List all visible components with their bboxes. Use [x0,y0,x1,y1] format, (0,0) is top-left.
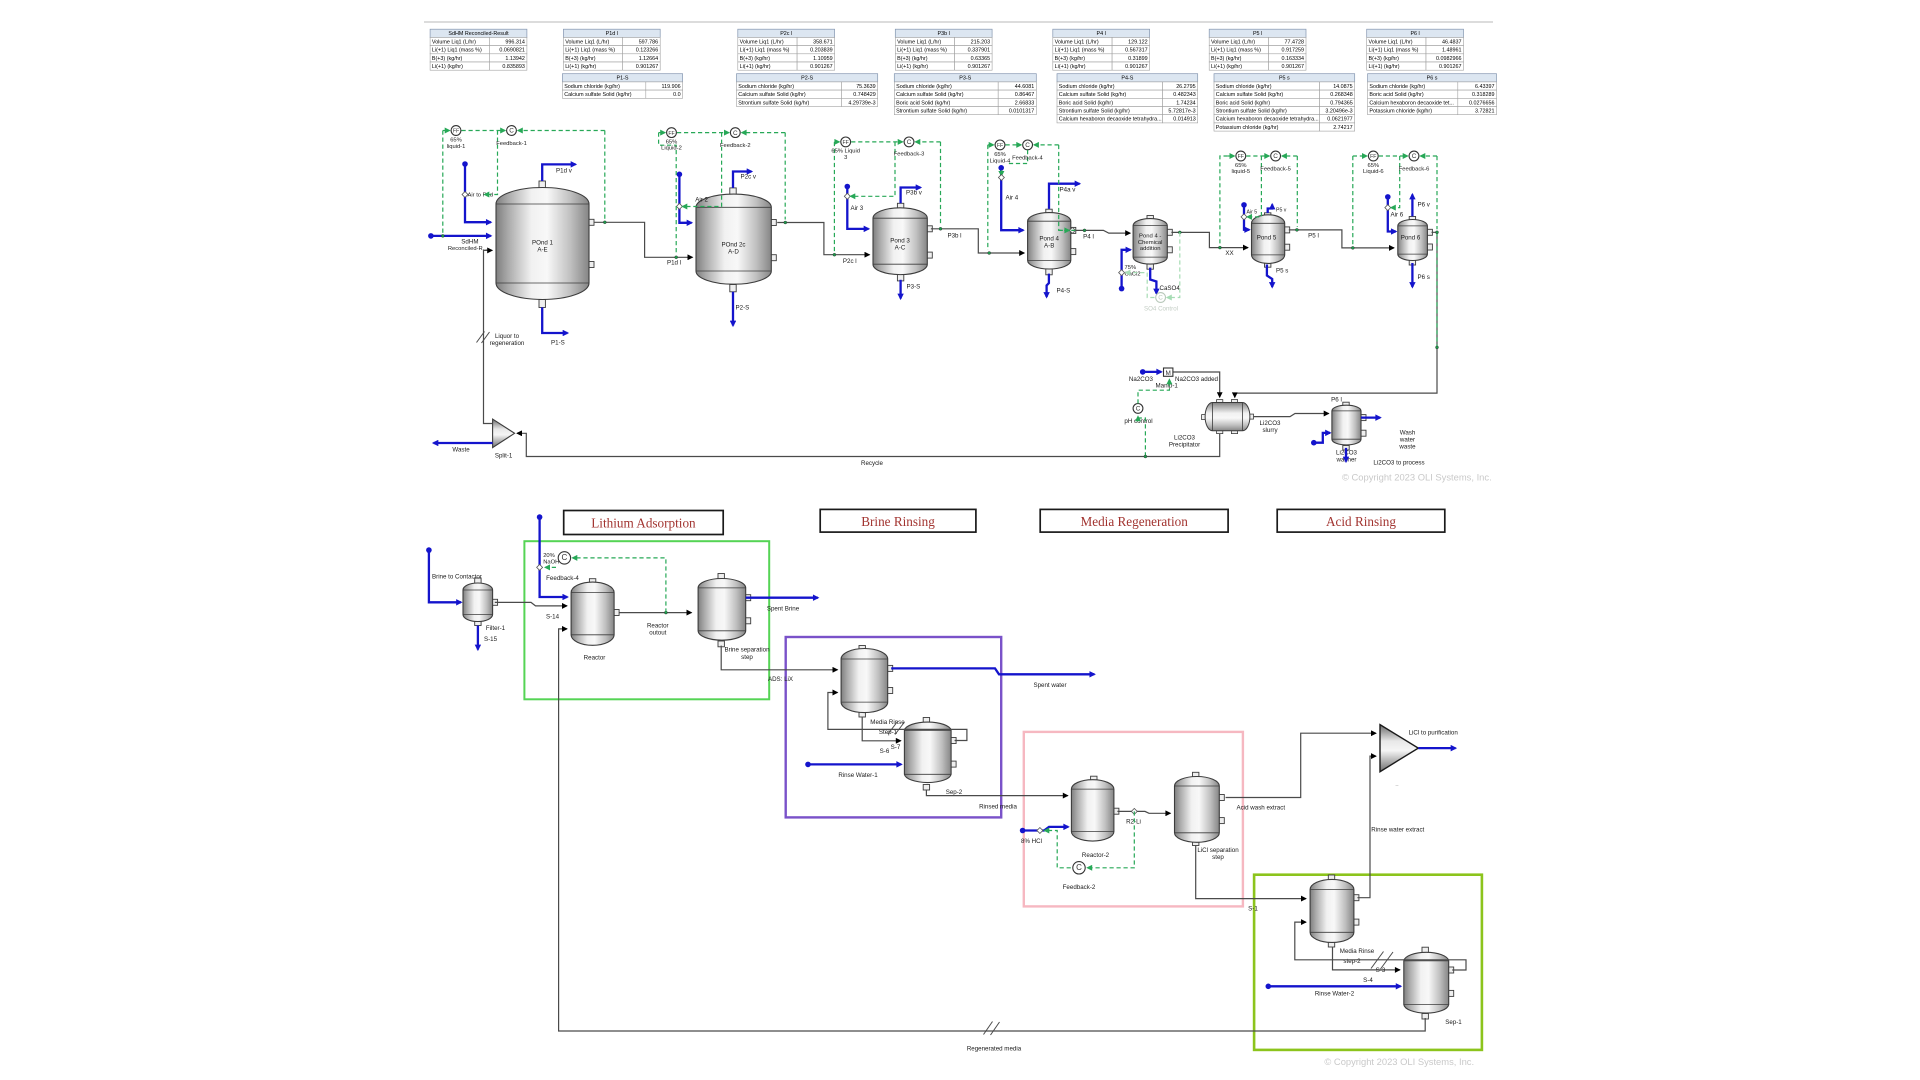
stream P3b v vapor [901,188,921,204]
valve node on NaOH line [537,564,543,570]
svg-text:FF: FF [668,131,674,137]
svg-text:Calcium hexaboron decaoxide te: Calcium hexaboron decaoxide tetrahydra..… [1216,117,1319,123]
svg-text:2.66833: 2.66833 [1015,100,1035,106]
svg-text:75%CaCl2: 75%CaCl2 [1125,265,1141,278]
svg-text:C: C [1076,863,1082,872]
wire dashed C-5 output to air valve [1247,156,1261,217]
node on P2c l at pond3 FF tap [833,253,836,256]
wire Liquor to regeneration stream [484,250,493,423]
stream S-15 out [477,626,479,650]
svg-text:M: M [1166,370,1171,377]
svg-text:0.835893: 0.835893 [502,64,524,70]
svg-text:LiCl to purification: LiCl to purification [1409,729,1459,736]
stream P5 s solids out [1267,265,1272,288]
node Feedback-4 tap on reactor out [664,611,667,614]
wire SO4 control sample [1167,232,1180,297]
svg-text:Potassium chloride (kg/hr): Potassium chloride (kg/hr) [1216,125,1279,131]
stream P1-S solids out [542,307,567,333]
svg-text:ADS: LiX: ADS: LiX [768,676,793,683]
svg-text:step-2: step-2 [1343,958,1361,965]
controller Feedback-4 C [1023,140,1033,150]
svg-text:0.901267: 0.901267 [1282,64,1304,70]
svg-text:26.2795: 26.2795 [1176,84,1196,90]
svg-text:FF: FF [453,129,459,135]
svg-text:Li(+1) Liq1 (mass %): Li(+1) Liq1 (mass %) [740,48,790,54]
wire pH control to Manip-1 [1138,380,1169,404]
svg-text:Air 5: Air 5 [1247,210,1258,216]
stream Spent Brine [746,597,818,599]
svg-text:P5 l: P5 l [1253,31,1262,37]
wire Feedback-4 sample from reactor out [573,558,666,613]
svg-text:0.0276656: 0.0276656 [1469,100,1494,106]
svg-text:P2-S: P2-S [801,76,813,82]
vessel Brine separation step [698,574,751,647]
svg-text:P5 s: P5 s [1276,268,1288,275]
svg-text:0.748429: 0.748429 [853,92,875,98]
svg-text:P3b l: P3b l [938,31,950,37]
pond vessel Pond 3 A-C [873,203,932,281]
svg-text:P2-S: P2-S [736,305,750,312]
svg-text:1.74234: 1.74234 [1176,100,1196,106]
svg-text:Feedback-2: Feedback-2 [720,143,751,149]
stream Air 3 [845,184,869,229]
svg-text:77.4728: 77.4728 [1285,39,1305,45]
svg-text:B(+3) (kg/hr): B(+3) (kg/hr) [740,56,771,62]
svg-text:C: C [1158,295,1163,302]
svg-text:Calcium sulfate Solid (kg/hr): Calcium sulfate Solid (kg/hr) [738,92,806,98]
wire S-5 loop stream [1295,922,1466,970]
svg-text:P4a v: P4a v [1060,186,1077,193]
node on P6 l top [1436,231,1439,234]
wire P4 l stream [1075,230,1130,233]
wire Feedback-2 to HCl valve [1045,831,1071,868]
wire dashed right tap into C-5 [1282,155,1297,157]
stream P6 v vapor [1411,195,1413,217]
svg-text:Brine to Contactor: Brine to Contactor [432,574,482,581]
svg-text:Feedback-1: Feedback-1 [496,141,527,147]
wire dashed FF-1 to C [462,130,506,132]
svg-text:20%NaOH: 20%NaOH [543,553,559,566]
node on P1d l at Feedback-1 tap [603,221,606,224]
wire Feedback-4 to NaOH valve [545,566,556,568]
stream Air to P1d [462,161,491,222]
svg-text:LiCl separationstep: LiCl separationstep [1197,847,1239,861]
valve node on HCl line [1037,828,1043,834]
solids table P2-S [737,74,878,107]
wire R2-Li stream [1117,811,1170,813]
svg-text:0.482343: 0.482343 [1173,92,1195,98]
wire dashed C-4 into P4 l diamond arrow [1059,229,1070,231]
stream SdHM Reconciled-R feed [428,233,491,239]
svg-text:Media Regeneration: Media Regeneration [1081,514,1189,529]
break mark on regenerated media line [984,1022,1000,1036]
svg-text:Media Rinse: Media Rinse [1340,948,1375,955]
wire Feedback-2 sample from R2-Li [1087,811,1134,867]
svg-text:65%Liquid-6: 65%Liquid-6 [1363,163,1384,175]
svg-text:FF: FF [1370,154,1376,160]
stream Na2CO3 feed [1140,369,1161,375]
svg-text:0.901267: 0.901267 [1125,64,1147,70]
stream CaSO4 out [1150,268,1156,294]
svg-text:XX: XX [1225,250,1233,257]
controller Feedback-6 C [1409,151,1419,161]
wire S-6 stream [862,717,901,741]
splitter Split-1 [493,419,515,448]
solids table P4-S [1057,74,1198,123]
wire dashed C-4 output to air valve [1009,150,1028,164]
section box Acid Rinsing boundary [1254,875,1482,1050]
wire dashed right tap into C-4 [1034,144,1059,146]
svg-text:Boric acid Solid (kg/hr): Boric acid Solid (kg/hr) [1369,92,1423,98]
svg-text:75.3639: 75.3639 [856,84,876,90]
vessel Reactor-2 [1071,776,1119,841]
svg-text:Li(+1) (kg/hr): Li(+1) (kg/hr) [1211,64,1242,70]
svg-text:P4-S: P4-S [1057,288,1071,295]
svg-text:Reconciled-R...: Reconciled-R... [448,246,488,252]
svg-text:Li(+1) (kg/hr): Li(+1) (kg/hr) [432,64,463,70]
valve node on Air 5 [1241,214,1247,220]
wire dashed right sample line C-3 [940,142,942,226]
svg-text:597.786: 597.786 [639,39,659,45]
wire S-14 stream [495,602,567,606]
svg-text:0.014913: 0.014913 [1173,117,1195,123]
wire dashed right sample line C-6 [1436,156,1438,229]
svg-text:Na2CO3: Na2CO3 [1129,376,1154,383]
wire dashed left tap FF-2 [659,133,677,255]
svg-text:S-6: S-6 [880,748,890,755]
break mark on S-7 line [888,722,905,735]
stream P4-S solids out [1047,274,1049,297]
svg-text:0.0621977: 0.0621977 [1327,117,1352,123]
svg-text:Volume Liq1 (L/hr): Volume Liq1 (L/hr) [565,39,609,45]
svg-text:Li(+1) Liq1 (mass %): Li(+1) Liq1 (mass %) [1369,48,1419,54]
svg-text:358.671: 358.671 [813,39,833,45]
pond vessel Pond 5 [1252,213,1290,267]
svg-text:Li(+1) (kg/hr): Li(+1) (kg/hr) [565,64,596,70]
svg-text:P6 s: P6 s [1418,274,1430,281]
stream Rinse Water-2 [1266,984,1401,990]
svg-text:Air 3: Air 3 [851,205,864,212]
svg-text:FF: FF [843,140,849,146]
svg-text:B(+3) (kg/hr): B(+3) (kg/hr) [897,56,928,62]
svg-text:Sep-2: Sep-2 [946,789,963,796]
wire S-1 stream [1196,846,1306,899]
stream P6 s solids out [1411,263,1413,287]
svg-text:Reactor-2: Reactor-2 [1082,852,1110,859]
svg-text:Brine Rinsing: Brine Rinsing [861,514,935,529]
svg-text:C: C [1412,153,1417,160]
svg-text:Sodium chloride (kg/hr): Sodium chloride (kg/hr) [1216,84,1272,90]
svg-text:5.72817e-3: 5.72817e-3 [1168,109,1195,115]
wire dashed right tap into C-1 [518,130,605,132]
svg-text:Sodium chloride (kg/hr): Sodium chloride (kg/hr) [1059,84,1115,90]
svg-text:1.12664: 1.12664 [639,56,659,62]
controller Feedback-4 C bottom [558,552,570,564]
wire dashed C-2 output to air valve [683,133,722,207]
svg-text:Step-1: Step-1 [879,729,898,736]
svg-text:0.0690821: 0.0690821 [499,48,524,54]
vessel Filter-1 [463,578,498,626]
svg-text:P4 l: P4 l [1083,234,1094,241]
pond vessel Pond 4 A-B [1028,209,1076,275]
wire dashed FF-5 to C [1246,155,1269,157]
svg-text:© Copyright 2023 OLI Systems,: © Copyright 2023 OLI Systems, Inc. [1342,472,1492,483]
svg-text:Waste: Waste [452,447,470,454]
stream table P2c l [738,29,835,70]
svg-text:Feedback-5: Feedback-5 [1260,166,1291,172]
node on XX at SO4 tap [1178,231,1181,234]
svg-text:P5 l: P5 l [1308,233,1319,240]
svg-text:B(+3) (kg/hr): B(+3) (kg/hr) [432,56,463,62]
wire XX stream (chem addition to Pond 5) [1171,232,1248,247]
wire dashed FF-3 to C [851,141,902,143]
svg-text:Calcium sulfate Solid (kg/hr): Calcium sulfate Solid (kg/hr) [564,92,632,98]
wire dashed right sample line C-4 [1059,145,1076,231]
svg-text:Calcium sulfate Solid (kg/hr): Calcium sulfate Solid (kg/hr) [1059,92,1127,98]
svg-text:pH control: pH control [1124,418,1152,425]
svg-text:Li(+1) Liq1 (mass %): Li(+1) Liq1 (mass %) [1055,48,1105,54]
controller FF 65% liquid-5 [1236,151,1246,161]
pond vessel Pond 6 [1398,217,1433,266]
svg-text:Sodium chloride (kg/hr): Sodium chloride (kg/hr) [564,84,620,90]
wire SO4 control to CaCl2 valve [1126,273,1155,298]
node on P2c l at Feedback-2 tap [784,221,787,224]
svg-text:S-7: S-7 [891,744,901,751]
svg-text:C: C [733,130,738,137]
stream 8% HCl [1020,827,1068,833]
svg-text:P3b l: P3b l [947,232,961,239]
svg-text:P2c v: P2c v [741,174,757,181]
svg-text:Air to P1d: Air to P1d [468,192,493,198]
title box Acid Rinsing [1277,509,1445,532]
svg-text:1.13942: 1.13942 [505,56,525,62]
svg-text:Li2CO3slurry: Li2CO3slurry [1260,420,1282,434]
wire dashed right sample line C-2 [784,133,786,220]
svg-text:Sodium chloride (kg/hr): Sodium chloride (kg/hr) [896,84,952,90]
vessel Media Rinse Step-1 [841,646,893,718]
controller Feedback-5 C [1271,151,1281,161]
svg-text:Strontium sulfate Solid (kg/hr: Strontium sulfate Solid (kg/hr) [738,100,809,106]
stream P2-S solids out [732,292,734,326]
svg-text:Air 4: Air 4 [1006,195,1019,202]
svg-text:SO4 Control: SO4 Control [1144,305,1178,312]
svg-text:Boric acid Solid (kg/hr): Boric acid Solid (kg/hr) [1059,100,1113,106]
svg-text:Rinse Water-2: Rinse Water-2 [1315,991,1355,998]
controller FF 65% liquid-4 [995,140,1005,150]
svg-text:S-4: S-4 [1363,977,1373,984]
svg-text:6.43397: 6.43397 [1475,84,1495,90]
vessel Li2CO3 washer [1332,402,1366,450]
stream Spent water [891,668,1094,674]
stream 75% CaCl2 feed [1119,250,1131,292]
svg-text:..: .. [1395,781,1399,788]
svg-text:Volume Liq1 (L/hr): Volume Liq1 (L/hr) [897,39,941,45]
svg-text:P1-S: P1-S [551,340,565,347]
svg-text:Sep-1: Sep-1 [1445,1019,1462,1026]
wire dashed FF-4 to C [1006,144,1022,146]
vessel Media Rinse step-2 [1310,875,1359,947]
wire dashed into FF-3 [834,141,839,143]
svg-text:C: C [509,128,514,135]
control valve node on P4 l [1069,227,1075,233]
svg-text:Li(+1) (kg/hr): Li(+1) (kg/hr) [1369,64,1400,70]
title box Media Regeneration [1040,509,1228,532]
svg-text:Li(+1) (kg/hr): Li(+1) (kg/hr) [1055,64,1086,70]
wire dashed into FF-2 [659,132,665,134]
svg-text:P2c l: P2c l [780,31,792,37]
break mark on liquor line [477,332,490,344]
wire dashed C-3 output to air valve [851,142,896,196]
svg-text:Air 2: Air 2 [695,197,708,204]
manipulator block Manip-1 [1164,368,1173,377]
svg-text:0.123266: 0.123266 [636,48,658,54]
svg-text:S-1: S-1 [1248,905,1258,912]
svg-text:P6 s: P6 s [1427,76,1438,82]
wire dashed FF-6 to C [1379,155,1408,157]
svg-text:Pond 6: Pond 6 [1401,235,1421,242]
svg-text:B(+3) (kg/hr): B(+3) (kg/hr) [1211,56,1242,62]
svg-text:P4-S: P4-S [1121,76,1133,82]
wire P1d l stream [595,222,693,257]
wire dashed right tap into C-6 [1421,155,1438,157]
wire Acid wash extract stream [1226,733,1376,797]
svg-text:SdHM: SdHM [461,239,478,246]
svg-text:Brine separationstep: Brine separationstep [724,647,770,661]
stream P4a v vapor [1049,184,1080,209]
svg-text:Acid Rinsing: Acid Rinsing [1326,514,1396,529]
wire P6 l stream to precipitator [1235,232,1437,397]
wire dashed left tap FF-3 [833,142,835,252]
wire Regenerated media stream [559,629,1426,1031]
svg-text:Media Rinse: Media Rinse [870,719,905,726]
svg-text:0.901267: 0.901267 [636,64,658,70]
svg-text:44.6081: 44.6081 [1015,84,1035,90]
svg-text:Feedback-2: Feedback-2 [1063,884,1096,891]
stream S- wash feed to washer [1311,433,1330,446]
svg-text:2.74217: 2.74217 [1333,125,1353,131]
wire dashed into FF-1 [443,130,450,132]
wire dashed left tap FF-5 [1220,156,1228,245]
svg-text:Rinse Water-1: Rinse Water-1 [838,772,878,779]
svg-text:Rinsed media: Rinsed media [979,803,1017,810]
svg-text:Sodium chloride (kg/hr): Sodium chloride (kg/hr) [1369,84,1425,90]
svg-text:0.901267: 0.901267 [810,64,832,70]
svg-text:Feedback-4: Feedback-4 [546,575,579,582]
wire P2c l stream [777,223,869,255]
stream table P4 l [1053,29,1150,70]
svg-text:65%liquid-5: 65%liquid-5 [1231,163,1250,175]
wire dashed into FF-6 [1353,155,1367,157]
solids table P3-S [894,74,1036,115]
stream LiCl to purification [1418,747,1455,749]
top divider line [424,21,1493,23]
break mark on S-3 line [1371,952,1393,970]
svg-text:SdHM Reconciled-Result: SdHM Reconciled-Result [448,31,509,37]
svg-text:C: C [562,553,568,562]
stream Rinse Water-1 [805,762,901,768]
controller Feedback-2 C bottom [1073,862,1085,874]
svg-text:P5 s: P5 s [1279,76,1290,82]
svg-text:S-15: S-15 [484,636,498,643]
svg-text:0.0: 0.0 [673,92,681,98]
wire dashed right sample line C-1 [604,131,606,220]
svg-text:P1d l: P1d l [606,31,618,37]
svg-text:65% Liquid3: 65% Liquid3 [831,149,860,161]
stream 20% NaOH [537,514,568,597]
svg-text:P3-S: P3-S [959,76,971,82]
svg-text:0.163334: 0.163334 [1282,56,1304,62]
svg-text:Spent Brine: Spent Brine [767,606,800,613]
svg-text:129.122: 129.122 [1128,39,1148,45]
stream Air 5 [1241,202,1249,230]
wire Rinse water extract stream [1357,756,1376,898]
svg-text:119.906: 119.906 [662,84,681,90]
svg-text:Pond 4 -Chemicaladdition: Pond 4 -Chemicaladdition [1138,234,1163,253]
stream P3-S solids out [899,280,901,299]
stream table P6 l [1367,29,1464,70]
svg-text:Strontium sulfate Solid (kg/hr: Strontium sulfate Solid (kg/hr) [1216,109,1287,115]
svg-text:14.0875: 14.0875 [1333,84,1353,90]
wire P5 l stream [1289,230,1394,248]
svg-text:1.10959: 1.10959 [813,56,833,62]
vessel Pond 4 - Chemical addition [1133,216,1172,270]
svg-text:Boric acid Solid (kg/hr): Boric acid Solid (kg/hr) [896,100,950,106]
stream Wash water waste [1361,416,1380,418]
svg-text:0.901267: 0.901267 [968,64,990,70]
wire dashed right sample line C-5 [1296,156,1298,227]
wire dashed into FF-4 [988,144,994,146]
svg-text:Volume Liq1 (L/hr): Volume Liq1 (L/hr) [1369,39,1413,45]
node on P4 l [1083,229,1086,232]
svg-text:65%Liquid-4: 65%Liquid-4 [990,152,1011,164]
wire Reactor outout stream [619,612,691,614]
valve node on Air 6 [1385,205,1391,211]
svg-text:8% HCl: 8% HCl [1021,838,1042,845]
node on P3b l at pond4 FF tap [988,252,991,255]
svg-text:Li2CO3 to process: Li2CO3 to process [1373,460,1424,467]
svg-text:P1-S: P1-S [617,76,629,82]
controller FF 65% liquid-3 [841,137,851,147]
wire S-7 loop stream [828,693,967,741]
node on P5 l at Feedback-5 tap [1295,228,1298,231]
svg-text:3.72821: 3.72821 [1475,109,1495,115]
svg-text:996.314: 996.314 [505,39,525,45]
section box Lithium Adsorption boundary [524,541,769,699]
svg-text:Lithium Adsorption: Lithium Adsorption [591,516,696,531]
controller FF 65% liquid-2 [667,128,677,138]
pond vessel POnd 2c A-D [696,188,776,292]
svg-text:Liquor toregeneration: Liquor toregeneration [490,333,525,347]
svg-text:Li(+1) Liq1 (mass %): Li(+1) Liq1 (mass %) [432,48,482,54]
svg-text:FF: FF [1238,154,1244,160]
svg-text:Recycle: Recycle [861,460,884,467]
svg-text:S-14: S-14 [546,614,560,621]
svg-text:Feedback-3: Feedback-3 [894,151,925,157]
wire dashed right tap into C-2 [742,132,785,134]
svg-text:0.268348: 0.268348 [1330,92,1352,98]
svg-text:Calcium sulfate Solid (kg/hr): Calcium sulfate Solid (kg/hr) [1216,92,1284,98]
svg-text:Spent water: Spent water [1033,682,1066,689]
controller pH control [1133,404,1143,414]
svg-text:Calcium sulfate Solid (kg/hr): Calcium sulfate Solid (kg/hr) [896,92,964,98]
svg-text:P1d l: P1d l [667,259,681,266]
svg-text:Li(+1) Liq1 (mass %): Li(+1) Liq1 (mass %) [565,48,615,54]
node on P5 l at pond6 FF tap [1351,246,1354,249]
svg-text:0.203839: 0.203839 [810,48,832,54]
svg-text:65%liquid-1: 65%liquid-1 [447,138,466,150]
solids table P1-S [562,74,682,99]
svg-text:R2-Li: R2-Li [1126,819,1141,826]
